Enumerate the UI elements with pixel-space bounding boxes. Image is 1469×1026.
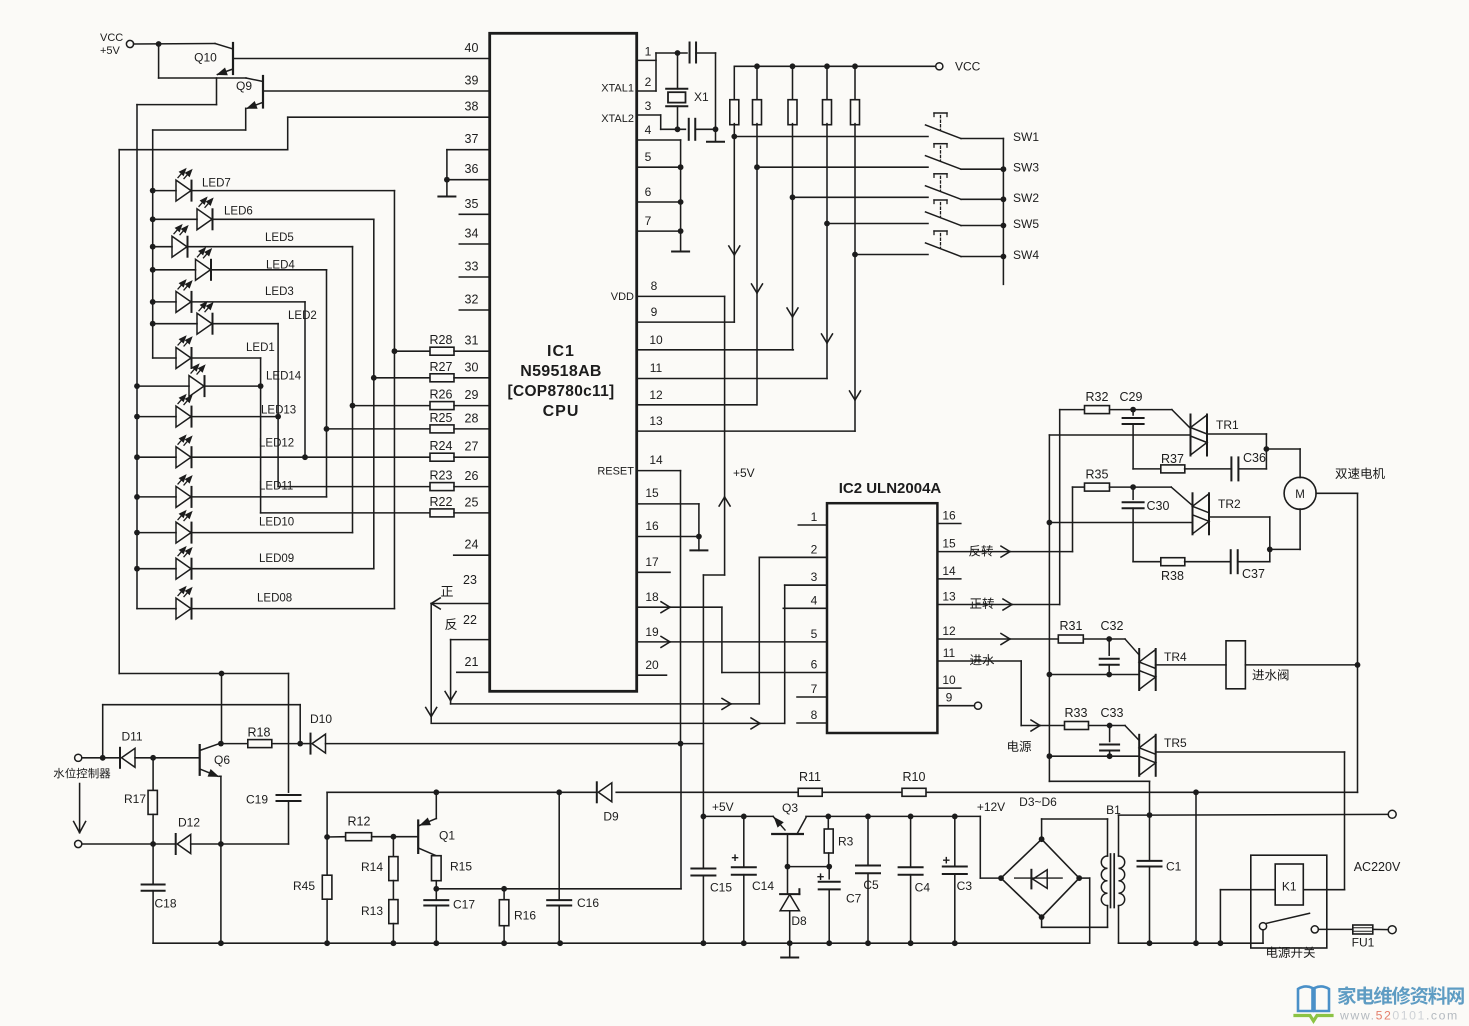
capacitor C29 bbox=[1132, 410, 1134, 415]
capacitor C18 bbox=[152, 844, 154, 885]
svg-text:20: 20 bbox=[645, 658, 659, 672]
node TR4 main junction bbox=[1047, 672, 1053, 678]
svg-text:R28: R28 bbox=[430, 333, 453, 347]
wire bridge top to B1 primary bbox=[1041, 819, 1043, 839]
triac TR2 gate wire bbox=[1171, 487, 1192, 506]
svg-text:VCC: VCC bbox=[100, 32, 123, 44]
node LED4 bus bbox=[150, 267, 156, 273]
resistor R25 bbox=[327, 428, 431, 430]
wire LED4 cathode jog bbox=[211, 269, 327, 271]
wire R104 to pin row bbox=[826, 124, 828, 379]
node R14 top bbox=[391, 834, 397, 840]
node R102 switch row bbox=[754, 164, 760, 170]
wire LED08 anode bbox=[137, 608, 176, 610]
resistor R22 bbox=[261, 512, 430, 514]
node AC terminal 1 bbox=[1388, 810, 1396, 818]
node bottom right bbox=[713, 126, 719, 132]
svg-text:40: 40 bbox=[465, 41, 479, 55]
wire R101 to pin row bbox=[733, 124, 735, 323]
resistor R3 bbox=[827, 816, 829, 829]
node R15 bottom bbox=[433, 886, 439, 892]
capacitor C33 bbox=[1109, 726, 1111, 742]
watermark site name bbox=[1338, 986, 1356, 1005]
node Q6 emitter row bbox=[218, 841, 224, 847]
diode D12 bbox=[175, 834, 177, 854]
wire TR5 out to relay K1 bbox=[1156, 751, 1345, 753]
node VCC junction bbox=[156, 41, 162, 47]
triac TR1 gate wire bbox=[1172, 410, 1191, 429]
svg-text:28: 28 bbox=[465, 411, 479, 425]
switch SW4 bbox=[926, 243, 962, 257]
resistor R12 bbox=[327, 836, 346, 838]
wire SW1 row bbox=[734, 136, 928, 138]
wire TR5 main row bbox=[1049, 755, 1139, 757]
resistor R45 bbox=[326, 837, 328, 875]
svg-text:8: 8 bbox=[651, 279, 658, 293]
node LED13 junction bbox=[275, 414, 281, 420]
wire AC line to terminal bbox=[1150, 813, 1389, 816]
wire R24 to IC1 bbox=[454, 456, 490, 458]
wire LED1 anode bbox=[153, 357, 176, 359]
wire K1 right to TR5 bbox=[1303, 889, 1344, 891]
wire pin 38 to bus C bbox=[288, 116, 490, 118]
node R45 top bbox=[324, 834, 330, 840]
node +5V C15 bbox=[701, 814, 707, 820]
svg-text:34: 34 bbox=[465, 227, 479, 241]
node C16 rail bbox=[556, 789, 562, 795]
wire R27 to IC1 bbox=[454, 377, 490, 379]
svg-text:TR4: TR4 bbox=[1164, 650, 1187, 664]
svg-text:+5V: +5V bbox=[712, 800, 734, 814]
svg-text:33: 33 bbox=[465, 260, 479, 274]
node C30 gate bbox=[1110, 486, 1172, 488]
op-amp U1 IC1 CPU box bbox=[490, 33, 637, 691]
svg-text:R25: R25 bbox=[430, 411, 453, 425]
ground crystal bbox=[715, 129, 717, 141]
resistor R18 bbox=[221, 743, 248, 745]
svg-text:12: 12 bbox=[649, 388, 663, 402]
water level terminal 2 bbox=[75, 840, 82, 847]
triac TR5 gate wire bbox=[1125, 726, 1139, 741]
svg-text:R3: R3 bbox=[838, 835, 854, 849]
capacitor C5 bbox=[867, 816, 869, 865]
fuse FU1 bbox=[1318, 928, 1352, 930]
svg-text:R45: R45 bbox=[293, 879, 315, 893]
svg-text:9: 9 bbox=[946, 691, 953, 705]
node valve AC junction bbox=[1355, 662, 1361, 668]
svg-text:22: 22 bbox=[463, 613, 477, 627]
LED LED5 bbox=[172, 236, 187, 257]
node LED6 bus bbox=[150, 216, 156, 222]
wire LED14 anode bbox=[137, 385, 189, 387]
wire reverse-run 反转 to R35 bbox=[937, 551, 1072, 553]
capacitor C17 bbox=[435, 889, 437, 900]
svg-text:C19: C19 bbox=[246, 793, 268, 807]
node R24 row junction bbox=[302, 454, 308, 460]
svg-text:27: 27 bbox=[465, 440, 479, 454]
wire C37 to motor node bbox=[1238, 561, 1270, 563]
node TR2 main junction bbox=[1047, 520, 1053, 526]
capacitor CT2 bottom bbox=[688, 119, 690, 140]
node rail drop bbox=[1193, 940, 1199, 946]
svg-text:6: 6 bbox=[645, 185, 652, 199]
resistor R17 bbox=[152, 758, 154, 791]
wire R102 to pin row bbox=[756, 124, 758, 405]
wire R105 to pin row bbox=[854, 124, 856, 432]
water level terminal 1 bbox=[75, 754, 82, 761]
capacitor CT1 top bbox=[689, 43, 691, 63]
node SW4 bus bbox=[1001, 254, 1007, 260]
resistor R23 bbox=[278, 486, 430, 488]
wire TR2 out bbox=[1209, 516, 1270, 518]
wire VDD to +5V bbox=[724, 296, 726, 575]
node motor top bbox=[1264, 446, 1270, 452]
resistor R26 bbox=[353, 405, 431, 407]
svg-text:R16: R16 bbox=[514, 909, 536, 923]
capacitor C1 bbox=[1149, 815, 1151, 860]
wire LED3 anode bbox=[153, 301, 176, 303]
relay K1 bbox=[1275, 864, 1303, 905]
wire Q10 base to pin 40 bbox=[234, 58, 490, 60]
zener D8 bbox=[787, 867, 789, 895]
node rail R104 bbox=[824, 63, 830, 69]
node Q1 collector rail bbox=[433, 789, 439, 795]
capacitor C3 bbox=[954, 816, 956, 866]
svg-text:R35: R35 bbox=[1086, 468, 1109, 482]
wire LED08 cathode row bbox=[192, 608, 395, 610]
node R16 top bbox=[501, 886, 507, 892]
svg-text:LED5: LED5 bbox=[265, 232, 294, 244]
wire LED6 anode bbox=[153, 218, 197, 220]
svg-text:SW4: SW4 bbox=[1013, 248, 1039, 262]
transistor Q6 bbox=[199, 745, 201, 775]
wire bottom cap to ground leg bbox=[695, 128, 715, 130]
svg-text:7: 7 bbox=[811, 682, 818, 696]
svg-text:23: 23 bbox=[463, 573, 477, 587]
wire up-over to C19 / D10 node bbox=[102, 705, 104, 758]
diode D9 bbox=[596, 782, 598, 802]
wire TR1 main line bbox=[1049, 434, 1190, 436]
node SW5 bus bbox=[1001, 223, 1007, 229]
LED LED7 bbox=[176, 180, 191, 201]
node C1 bottom bbox=[1147, 940, 1153, 946]
svg-text:X1: X1 bbox=[694, 90, 709, 104]
wire C19 riser bbox=[288, 674, 290, 793]
triac TR4 gate wire bbox=[1125, 639, 1139, 655]
switch contact right bbox=[1311, 926, 1318, 933]
node pin6 bbox=[678, 199, 684, 205]
node rail to bottom bbox=[1193, 789, 1199, 795]
node LED10 bus bbox=[134, 530, 140, 536]
node C32 gate bbox=[1083, 638, 1125, 640]
node LED5 bus bbox=[150, 244, 156, 250]
svg-text:14: 14 bbox=[649, 453, 663, 467]
wire TR1 out bbox=[1207, 433, 1266, 435]
water level arrow bbox=[79, 784, 81, 833]
svg-text:6: 6 bbox=[811, 658, 818, 672]
node C1 top bbox=[1147, 812, 1153, 818]
resistor R32 bbox=[1060, 409, 1085, 411]
wire forward-run 正转 to R32 bbox=[937, 604, 1059, 606]
svg-text:D8: D8 bbox=[791, 914, 807, 928]
node R105 switch row bbox=[852, 252, 858, 258]
wire R22 to IC1 bbox=[454, 512, 490, 514]
svg-text:13: 13 bbox=[942, 590, 956, 604]
svg-text:RESET: RESET bbox=[597, 466, 634, 478]
svg-text:Q9: Q9 bbox=[236, 79, 252, 93]
svg-text:R22: R22 bbox=[430, 495, 453, 509]
capacitor C32 bbox=[1108, 639, 1110, 655]
node R17 bottom bbox=[150, 841, 156, 847]
wire TR4 out to valve bbox=[1156, 664, 1226, 666]
switch SW5 bbox=[926, 212, 962, 226]
capacitor C36 bbox=[1185, 468, 1232, 470]
node LED14 junction bbox=[258, 383, 264, 389]
node C4 top bbox=[908, 814, 914, 820]
svg-text:R27: R27 bbox=[430, 360, 453, 374]
svg-text:D9: D9 bbox=[603, 810, 619, 824]
svg-text:C37: C37 bbox=[1242, 567, 1265, 581]
wire power 电源 row to R33 bbox=[1021, 725, 1064, 727]
svg-text:IC2 ULN2004A: IC2 ULN2004A bbox=[839, 480, 942, 497]
wire +5V rail right bbox=[828, 815, 980, 817]
node D10 junction bbox=[297, 741, 303, 747]
svg-text:VDD: VDD bbox=[611, 291, 634, 303]
capacitor C16 bbox=[558, 792, 560, 900]
LED LED11 bbox=[176, 486, 191, 507]
resistor R15 bbox=[432, 856, 442, 881]
wire LED10 cathode row bbox=[192, 532, 353, 534]
ground D8 bbox=[789, 943, 791, 957]
svg-text:VCC: VCC bbox=[955, 60, 981, 74]
svg-text:R26: R26 bbox=[430, 388, 453, 402]
wire pin 23 forward bbox=[431, 603, 490, 605]
svg-text:30: 30 bbox=[465, 360, 479, 374]
wire R15 row to reset riser bbox=[436, 888, 681, 890]
svg-text:R32: R32 bbox=[1086, 390, 1109, 404]
node pin9 terminal bbox=[974, 702, 981, 709]
wire pins 1-2 to crystal top bbox=[655, 53, 657, 91]
svg-text:C17: C17 bbox=[453, 898, 475, 912]
svg-text:C16: C16 bbox=[577, 896, 599, 910]
svg-text:LED09: LED09 bbox=[259, 553, 294, 565]
wire Q10 collector path bbox=[158, 44, 160, 78]
node LED3 bus bbox=[150, 299, 156, 305]
svg-text:11: 11 bbox=[943, 646, 956, 660]
wire rail corner to R12 row bbox=[326, 792, 328, 837]
resistor R14 bbox=[392, 837, 394, 857]
svg-text:+5V: +5V bbox=[100, 45, 121, 57]
wire FU1 to terminal bbox=[1373, 928, 1389, 930]
svg-text:5: 5 bbox=[645, 150, 652, 164]
svg-text:C1: C1 bbox=[1166, 860, 1182, 874]
svg-text:D11: D11 bbox=[121, 730, 142, 744]
svg-text:+: + bbox=[731, 850, 739, 865]
node R3 top bbox=[825, 814, 831, 820]
svg-text:39: 39 bbox=[465, 73, 479, 87]
node Q3 base R3 bbox=[785, 864, 791, 870]
wire LED5 cathode jog bbox=[188, 246, 353, 248]
svg-text:Q1: Q1 bbox=[439, 829, 455, 843]
wire R103 to pin row bbox=[792, 124, 794, 350]
LED LED13 bbox=[176, 406, 191, 427]
svg-text:C5: C5 bbox=[863, 878, 879, 892]
LED LED10 bbox=[176, 522, 191, 543]
node bridge top bbox=[1039, 836, 1045, 842]
wire R26 to IC1 bbox=[454, 405, 490, 407]
svg-text:D10: D10 bbox=[310, 712, 332, 726]
svg-text:C14: C14 bbox=[752, 879, 774, 893]
node TR4 lower row C32 bbox=[1106, 672, 1112, 678]
wire bridge bottom to B1 primary bbox=[1041, 917, 1043, 927]
svg-text:LED10: LED10 bbox=[259, 517, 294, 529]
wire LED5 anode bbox=[153, 246, 172, 248]
svg-text:11: 11 bbox=[650, 361, 663, 375]
node R28 row junction bbox=[392, 348, 398, 354]
wire B1 secondary top to AC line bbox=[1118, 815, 1120, 856]
motor M 双速电机 bbox=[1284, 477, 1316, 509]
node AC terminal 2 bbox=[1388, 926, 1396, 934]
svg-text:D3~D6: D3~D6 bbox=[1019, 795, 1057, 809]
wire LED11 anode bbox=[137, 496, 176, 498]
node C3 top bbox=[952, 814, 958, 820]
wire R28 to IC1 bbox=[454, 350, 490, 352]
wire K1 branch bbox=[1219, 890, 1221, 944]
svg-text:R37: R37 bbox=[1161, 452, 1184, 466]
svg-text:K1: K1 bbox=[1282, 880, 1297, 894]
wire pin 22 reverse bbox=[451, 639, 490, 641]
resistor R27 bbox=[374, 377, 430, 379]
svg-text:17: 17 bbox=[645, 555, 659, 569]
node LED09 bus bbox=[134, 566, 140, 572]
svg-text:LED7: LED7 bbox=[202, 178, 231, 190]
wire LED11 cathode row bbox=[192, 496, 327, 498]
wire VCC to Q10 bbox=[134, 43, 215, 46]
switch SW2 bbox=[926, 186, 962, 200]
svg-text:35: 35 bbox=[465, 197, 479, 211]
svg-text:R15: R15 bbox=[450, 860, 472, 874]
resistor R105 bbox=[854, 66, 856, 101]
svg-text:XTAL1: XTAL1 bbox=[601, 83, 634, 95]
wire LED09 cathode row bbox=[192, 568, 374, 570]
svg-text:www.520101.com: www.520101.com bbox=[1339, 1009, 1459, 1023]
wire VCC rail top bbox=[734, 65, 935, 67]
svg-text:R33: R33 bbox=[1065, 706, 1088, 720]
resistor R24 bbox=[430, 453, 454, 461]
resistor R37 bbox=[1133, 468, 1161, 470]
svg-text:3: 3 bbox=[811, 570, 818, 584]
wire SW4 row bbox=[855, 254, 928, 256]
resistor R10 bbox=[902, 788, 926, 796]
wire IC2 pin9 to terminal bbox=[937, 705, 974, 707]
svg-text:32: 32 bbox=[465, 293, 479, 307]
resistor R102 bbox=[756, 66, 758, 101]
svg-text:7: 7 bbox=[645, 214, 652, 228]
node crystal top bbox=[675, 50, 681, 56]
svg-text:AC220V: AC220V bbox=[1354, 860, 1401, 874]
svg-text:R11: R11 bbox=[799, 770, 821, 784]
resistor R104 bbox=[826, 66, 828, 101]
transistor Q3 bbox=[773, 816, 785, 830]
svg-text:31: 31 bbox=[465, 334, 479, 348]
wire pin3 to crystal bottom bbox=[660, 115, 662, 129]
capacitor C19 bbox=[277, 794, 301, 796]
capacitor C30 bbox=[1132, 487, 1134, 499]
LED LED14 bbox=[189, 376, 204, 397]
node LED12 bus bbox=[134, 454, 140, 460]
wire terminal2 D12 row bbox=[82, 843, 176, 845]
node LED7 bus bbox=[150, 188, 156, 194]
node R17 top bbox=[150, 755, 156, 761]
svg-text:R23: R23 bbox=[430, 469, 453, 483]
transistor Q9 bbox=[246, 78, 263, 82]
wire Q10 collector to LED bus A bbox=[216, 78, 218, 105]
ground pins 15-16 bbox=[698, 537, 700, 551]
switch SW3 bbox=[926, 156, 962, 170]
node pin16 gnd bbox=[696, 534, 702, 540]
svg-text:R38: R38 bbox=[1161, 569, 1184, 583]
svg-text:Q10: Q10 bbox=[194, 51, 217, 65]
svg-text:TR1: TR1 bbox=[1216, 418, 1239, 432]
crystal X1 bbox=[677, 53, 679, 89]
water level label 水位控制器 bbox=[54, 768, 65, 779]
svg-text:+: + bbox=[943, 853, 951, 868]
wire R25 to IC1 bbox=[454, 428, 490, 430]
svg-text:12: 12 bbox=[942, 624, 956, 638]
wire main AC line R11 R10 bbox=[327, 791, 597, 793]
wire cap to right leg bbox=[696, 52, 716, 54]
switch blade bbox=[1267, 913, 1310, 923]
node R27 row junction bbox=[371, 375, 377, 381]
node +5V C14 bbox=[741, 814, 747, 820]
node rail R103 bbox=[790, 63, 796, 69]
capacitor C37 bbox=[1185, 561, 1231, 563]
wire to motor bottom bbox=[1270, 548, 1300, 550]
bridge rectifier D3-D6 bbox=[1001, 839, 1079, 917]
wire LED12 anode bbox=[137, 456, 176, 458]
svg-text:R14: R14 bbox=[361, 860, 383, 874]
LED LED4 bbox=[196, 259, 211, 280]
triac TR1 bbox=[1190, 415, 1192, 456]
svg-text:R13: R13 bbox=[361, 904, 383, 918]
wire LED3 cathode jog bbox=[192, 301, 306, 303]
svg-text:15: 15 bbox=[645, 486, 659, 500]
svg-text:M: M bbox=[1295, 489, 1305, 501]
capacitor C7 bbox=[828, 867, 830, 879]
svg-text:13: 13 bbox=[649, 414, 663, 428]
svg-text:C30: C30 bbox=[1147, 499, 1170, 513]
node C29 gate bbox=[1110, 409, 1172, 411]
capacitor C4 bbox=[910, 816, 912, 867]
svg-text:4: 4 bbox=[811, 593, 818, 607]
wire reverse line to IC2 pin2 bbox=[451, 703, 760, 705]
svg-text:SW2: SW2 bbox=[1013, 191, 1039, 205]
svg-text:+12V: +12V bbox=[977, 800, 1005, 814]
wire LED7 anode bbox=[153, 190, 176, 192]
ground pins 4-7 bbox=[672, 251, 689, 253]
power switch box 电源开关 bbox=[1251, 855, 1327, 948]
resistor R101 bbox=[733, 66, 735, 101]
wire terminal1 to D11 bbox=[82, 757, 120, 759]
wire SW2 row bbox=[793, 196, 929, 198]
svg-text:38: 38 bbox=[465, 100, 479, 114]
svg-text:SW3: SW3 bbox=[1013, 161, 1039, 175]
svg-text:R10: R10 bbox=[903, 770, 926, 784]
svg-text:TR5: TR5 bbox=[1164, 736, 1187, 750]
wire LED12 cathode row bbox=[192, 456, 431, 458]
wire Q6 emitter to rail bbox=[220, 844, 222, 943]
transistor Q10 bbox=[215, 44, 233, 50]
